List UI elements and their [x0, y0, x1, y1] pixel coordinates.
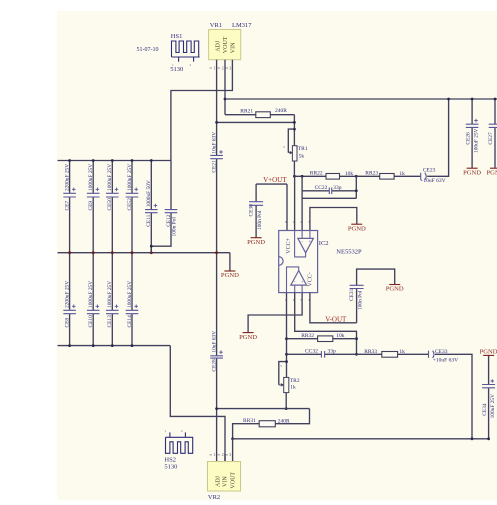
wire IC2 pin4 VCC- / V-OUT [310, 293, 357, 323]
capacitor CE10 plates [87, 310, 100, 313]
svg-text:3: 3 [229, 65, 231, 70]
junction OUT B / CC32 row [285, 353, 288, 356]
svg-text:CE27: CE27 [488, 132, 494, 145]
capacitor CE33 plates [428, 351, 430, 358]
wire VR1 VIN to top rail of cap bank [171, 60, 233, 161]
junction bottom rail / CE33 branch [471, 437, 474, 440]
svg-text:TR2: TR2 [290, 378, 300, 384]
svg-text:1000uF 25V: 1000uF 25V [127, 164, 133, 191]
svg-text:ADJ: ADJ [215, 40, 221, 52]
svg-text:CE52: CE52 [127, 198, 133, 211]
capacitor CE11 plates [145, 210, 158, 213]
capacitor CE14 leads [131, 253, 133, 346]
svg-text:2: 2 [190, 63, 192, 67]
svg-text:1: 1 [293, 220, 295, 224]
svg-text:100n Pol: 100n Pol [257, 210, 263, 230]
wire RR31 upper link row [217, 408, 310, 410]
svg-text:100uF 25V: 100uF 25V [473, 128, 479, 153]
svg-text:VOUT: VOUT [223, 36, 229, 53]
junction bottom rail / CE8 [68, 344, 71, 347]
junction top rail / CE50 [111, 159, 114, 162]
svg-text:+10uF 63V: +10uF 63V [420, 178, 445, 184]
svg-text:PGND: PGND [480, 348, 497, 355]
wire RR31 left leg [233, 424, 260, 439]
svg-text:VIN: VIN [231, 42, 237, 53]
svg-text:3: 3 [308, 220, 310, 224]
top rail (VIN unregulated +) [58, 160, 172, 162]
capacitor CE9 leads [92, 161, 94, 253]
capacitor CE50 plates [106, 193, 119, 197]
svg-text:240R: 240R [278, 418, 290, 424]
junction top rail / CE11 [150, 159, 153, 162]
capacitor CE12 leads [151, 161, 171, 253]
op-amp IC2 body [279, 231, 318, 293]
wire right connector upper [355, 176, 357, 198]
svg-text:8: 8 [285, 220, 287, 224]
junction TR2 / RR31 link row [285, 407, 288, 410]
capacitor CE23 plates [420, 173, 422, 180]
wire VR1 ADJ down to CE21 [216, 60, 218, 156]
wire ADJ/PGND vertical CE21 to CE28 [216, 159, 218, 356]
svg-text:RR31: RR31 [243, 418, 256, 424]
capacitor CE14 polarity + [134, 305, 138, 309]
svg-text:2: 2 [222, 65, 224, 70]
VR1 pin number dashes [210, 67, 229, 69]
svg-text:PGND: PGND [221, 272, 239, 279]
wire bottom output rail V-OUT [233, 438, 489, 440]
svg-text:PGND: PGND [487, 169, 497, 176]
svg-text:1: 1 [214, 65, 216, 70]
wire IC2 pin6 IN- B link [295, 293, 357, 355]
svg-text:CE11: CE11 [146, 214, 152, 226]
capacitor CE9 plates [87, 193, 100, 197]
svg-text:PGND: PGND [247, 239, 265, 246]
wire CE30 to PGND [255, 205, 257, 237]
wire CC22 row [302, 190, 356, 192]
resistor RR32 body [318, 336, 333, 342]
junction RR22/RR23 [355, 175, 358, 178]
svg-text:CE28: CE28 [211, 359, 217, 372]
capacitor CE7 polarity + [72, 188, 76, 192]
wire RR21 row [225, 114, 294, 116]
resistor RR22 body [326, 174, 340, 180]
svg-text:100n Pol: 100n Pol [358, 290, 364, 310]
junction top rail / CE26 [471, 98, 474, 101]
wire TR2 wiper [279, 362, 286, 385]
junction bottom rail / CE13 [111, 344, 114, 347]
wire to CE30 top [255, 184, 257, 202]
svg-text:VR2: VR2 [208, 494, 220, 500]
wire RR21 to TR1 [293, 115, 295, 146]
svg-text:+10uF 63V: +10uF 63V [433, 357, 458, 363]
svg-text:IC2: IC2 [319, 240, 329, 247]
svg-text:VCC+: VCC+ [286, 237, 292, 253]
capacitor CE27 (clipped at edge) [494, 99, 496, 168]
op-amp IC2 triangle A [298, 238, 314, 252]
capacitor CE13 plates [106, 310, 119, 313]
svg-text:10k: 10k [336, 333, 345, 339]
svg-text:1k: 1k [399, 171, 405, 177]
junction IN- B / CC32-RR33 row [355, 353, 358, 356]
junction bottom output rail / VR2 VOUT [231, 437, 234, 440]
op-amp IC2 triangle B [291, 271, 307, 286]
svg-text:5130: 5130 [170, 66, 183, 73]
svg-text:CE13: CE13 [107, 315, 113, 328]
wire TR1 bottom to feedback node [293, 161, 295, 176]
capacitor CE34 polarity + [491, 379, 495, 383]
svg-text:1000uF 25V: 1000uF 25V [88, 164, 94, 191]
wire CC32 row [287, 353, 382, 355]
svg-text:CE34: CE34 [482, 403, 488, 416]
capacitor CE52 plates [126, 193, 139, 197]
svg-text:1: 1 [214, 452, 216, 457]
power port PGND at IN+ B [243, 332, 254, 334]
heatsink HS1 legs [179, 57, 194, 62]
wire CE28 to VR2 ADJ [216, 358, 218, 461]
op-amp A output routing [295, 231, 310, 257]
capacitor CE11 polarity + [154, 204, 158, 208]
wire RR33 to CE33 [398, 353, 429, 355]
wire V-OUT to CE31 bottom [356, 289, 358, 323]
capacitor CC22 plates [329, 188, 331, 195]
svg-text:CE7: CE7 [64, 201, 70, 211]
junction top rail / CE27 [494, 98, 497, 101]
svg-text:2200uF 25V: 2200uF 25V [64, 281, 70, 308]
capacitor CE13 polarity + [115, 305, 119, 309]
svg-text:2: 2 [300, 220, 302, 224]
junction bottom rail / CE34 [487, 437, 490, 440]
wire ADJ branch to TR1 [217, 121, 295, 123]
svg-text:CE10: CE10 [88, 315, 94, 328]
svg-text:1000uF 25V: 1000uF 25V [127, 281, 133, 308]
svg-text:HS1: HS1 [171, 33, 183, 40]
svg-text:CE31: CE31 [349, 288, 355, 301]
capacitor CE50 leads [111, 161, 113, 253]
power port PGND at CE31 [389, 284, 400, 286]
svg-text:2: 2 [222, 452, 224, 457]
svg-text:1k: 1k [290, 385, 296, 391]
capacitor CE8 leads [69, 253, 71, 346]
svg-text:VIN: VIN [222, 476, 228, 487]
wire RR31 right leg [275, 409, 309, 424]
junction bottom rail / CE14 [131, 344, 134, 347]
svg-text:RR22: RR22 [310, 171, 323, 177]
trimmer TR2 wiper arrow [279, 384, 284, 386]
svg-text:CE21: CE21 [211, 160, 217, 173]
wire CE31 to PGND [357, 269, 395, 285]
svg-text:RR32: RR32 [301, 333, 314, 339]
svg-text:100n Pol: 100n Pol [171, 217, 177, 237]
svg-text:TR1: TR1 [298, 146, 308, 152]
power port PGND at CE26 [467, 167, 478, 169]
svg-text:RR21: RR21 [240, 109, 253, 115]
svg-text:VCC-: VCC- [308, 272, 314, 286]
op-amp IC2 notch [279, 257, 283, 266]
capacitor CE31 plates [350, 285, 364, 288]
capacitor CE11 leads [150, 161, 152, 253]
junction top rail / CE7 [68, 159, 71, 162]
svg-text:+: + [308, 240, 311, 245]
heatsink HS2 legs [170, 432, 186, 437]
wire IC2 pin3 IN+ A to PGND [310, 208, 357, 231]
capacitor CE21 polarity + [219, 150, 223, 154]
junction TR1 line / ADJ branch [293, 121, 296, 124]
wire CE33 to bottom rail [435, 354, 472, 439]
capacitor CE9 polarity + [96, 188, 100, 192]
resistor RR23 body [380, 174, 394, 180]
junction top rail / CE23 branch [447, 98, 450, 101]
junction bottom rail / CE10 [92, 344, 95, 347]
wire RR23 row [356, 175, 420, 177]
junction mid rail / CE14 [131, 251, 134, 254]
svg-text:PGND: PGND [463, 169, 481, 176]
capacitor CE26 plates [466, 124, 479, 127]
trimmer TR2 body [284, 377, 289, 392]
svg-text:CC22: CC22 [315, 185, 328, 191]
svg-text:1000uF 50V: 1000uF 50V [146, 180, 152, 207]
wire IN- A lower link [302, 197, 356, 199]
capacitor CE21 plates [210, 155, 223, 158]
junction CC22 row / connector [355, 189, 358, 192]
capacitor CE30 plates [249, 202, 263, 206]
junction mid rail / CE8 [68, 251, 71, 254]
junction VOUT / top output rail [224, 98, 227, 101]
svg-text:1: 1 [164, 429, 166, 433]
svg-text:PGND: PGND [348, 225, 366, 232]
svg-text:5130: 5130 [164, 463, 177, 470]
wire VR1 VOUT down [224, 60, 226, 115]
junction V+OUT feedback node [293, 175, 296, 178]
capacitor CE52 leads [131, 161, 133, 253]
svg-text:10k: 10k [345, 171, 354, 177]
power port PGND at CE34 [483, 354, 494, 356]
svg-text:PGND: PGND [386, 286, 404, 293]
svg-text:CE14: CE14 [127, 315, 133, 328]
wire VR2 VOUT [232, 439, 234, 462]
svg-text:1000uF 25V: 1000uF 25V [107, 281, 113, 308]
capacitor CE12 plates [165, 210, 178, 213]
regulator VR2 body [208, 462, 241, 492]
svg-text:VOUT: VOUT [230, 472, 236, 489]
svg-text:VR1: VR1 [210, 22, 222, 29]
trimmer TR1 wiper arrow [288, 151, 292, 153]
wire V+OUT to IC2 pin8 VCC+ [256, 184, 287, 230]
wire RR32 row [287, 338, 357, 340]
mid rail (PGND) [58, 252, 230, 254]
junction mid rail / CE13 [111, 251, 114, 254]
svg-text:+: + [301, 281, 304, 286]
junction mid rail / ADJ vertical [215, 251, 218, 254]
junction RR22 row / IN- leg [301, 175, 304, 178]
wire IC2 pin7 OUT B down to TR2 [286, 293, 288, 378]
svg-text:51-07-10: 51-07-10 [137, 47, 159, 53]
junction ADJ line / branch [215, 121, 218, 124]
junction IN- B / RR32 right [355, 337, 358, 340]
resistor RR21 body [256, 112, 270, 118]
capacitor CE10 leads [92, 253, 94, 346]
op-amp B output routing [287, 267, 303, 293]
wire mid rail PGND stub [229, 253, 231, 271]
capacitor CE34 plates [482, 385, 495, 388]
power port PGND at CE27 [490, 167, 497, 169]
junction TR1 wiper branch [293, 128, 296, 131]
svg-text:10uF 63V: 10uF 63V [211, 331, 217, 353]
regulator VR1 body [209, 30, 241, 60]
capacitor CE26 [471, 99, 473, 168]
VR2 pin number dashes [210, 454, 229, 456]
trimmer TR1 body [292, 146, 297, 161]
svg-text:LM317: LM317 [232, 22, 252, 29]
junction CE11/CE12 link [150, 245, 153, 248]
junction TR2 wiper branch [285, 360, 288, 363]
svg-text:CC32: CC32 [305, 349, 318, 355]
resistor RR33 body [382, 352, 398, 358]
heatsink HS1 symbol [172, 41, 200, 57]
resistor RR31 body [259, 421, 275, 427]
svg-text:2: 2 [181, 429, 183, 433]
capacitor CE8 plates [63, 310, 76, 313]
svg-text:CE26: CE26 [465, 132, 471, 145]
capacitor CE8 polarity + [72, 305, 76, 309]
svg-text:CE9: CE9 [88, 201, 94, 211]
capacitor CE7 plates [63, 193, 76, 197]
junction top rail / CE9 [92, 159, 95, 162]
svg-text:2200uF 25V: 2200uF 25V [64, 164, 70, 191]
svg-text:100uF 25V: 100uF 25V [490, 394, 496, 419]
wire bottom rail to VR2 VIN [170, 346, 225, 462]
capacitor CE28 plates [210, 356, 223, 358]
wire RR22 row [294, 175, 356, 177]
svg-text:1000uF 25V: 1000uF 25V [107, 164, 113, 191]
wire IC2 pin1 OUT A [294, 176, 296, 231]
wire top output rail V+OUT [225, 98, 497, 100]
power port PGND at CE30 [251, 237, 262, 239]
capacitor CE13 leads [111, 253, 113, 346]
svg-text:5k: 5k [299, 154, 305, 160]
svg-text:1000uF 25V: 1000uF 25V [88, 281, 94, 308]
svg-text:PGND: PGND [239, 334, 257, 341]
svg-text:3: 3 [280, 364, 282, 368]
svg-text:CE30: CE30 [249, 204, 255, 217]
wire TR2 bottom [285, 393, 287, 409]
bottom rail (VIN unregulated -) [58, 345, 171, 347]
wire VR2 VIN stub [224, 454, 226, 462]
capacitor CE27 plates [489, 124, 497, 127]
svg-text:240R: 240R [275, 108, 287, 114]
svg-text:NE5532P: NE5532P [336, 249, 362, 256]
capacitor CE26 polarity + [474, 119, 478, 123]
wire IC2 pin5 IN+ B to PGND [248, 293, 302, 333]
power port PGND at mid rail [224, 270, 235, 272]
capacitor CE28 polarity + [219, 350, 223, 354]
svg-text:V+OUT: V+OUT [263, 176, 287, 184]
svg-text:RR23: RR23 [365, 171, 378, 177]
junction top rail / CE52 [131, 159, 134, 162]
junction mid rail / CE11 [150, 251, 153, 254]
heatsink HS2 symbol [166, 437, 194, 453]
svg-text:ADJ: ADJ [215, 475, 221, 487]
junction OUT B / RR32 row [285, 337, 288, 340]
wire CE23 to top rail [427, 99, 448, 176]
capacitor CE50 polarity + [115, 188, 119, 192]
junction mid rail / CE10 [92, 251, 95, 254]
wire IC2 pin2 IN- A [301, 176, 303, 230]
svg-text:V-OUT: V-OUT [325, 315, 347, 323]
svg-text:RR33: RR33 [364, 349, 377, 355]
capacitor CE52 polarity + [134, 188, 138, 192]
svg-text:CE8: CE8 [64, 318, 70, 328]
power port PGND at IN+ A [351, 223, 362, 225]
svg-text:CE50: CE50 [107, 198, 113, 211]
svg-text:10uF 63V: 10uF 63V [211, 132, 217, 154]
svg-text:3: 3 [283, 145, 285, 149]
capacitor CE10 polarity + [96, 305, 100, 309]
capacitor CE14 plates [126, 310, 139, 313]
capacitor CC32 plates [321, 351, 324, 358]
svg-text:33p: 33p [333, 185, 342, 191]
capacitor CE7 leads [69, 161, 71, 253]
svg-text:33p: 33p [328, 349, 337, 355]
svg-text:CE23: CE23 [423, 168, 436, 174]
junction ADJ vertical / RR31 link [215, 407, 218, 410]
wire TR1 wiper [288, 129, 294, 153]
svg-text:3: 3 [229, 452, 231, 457]
